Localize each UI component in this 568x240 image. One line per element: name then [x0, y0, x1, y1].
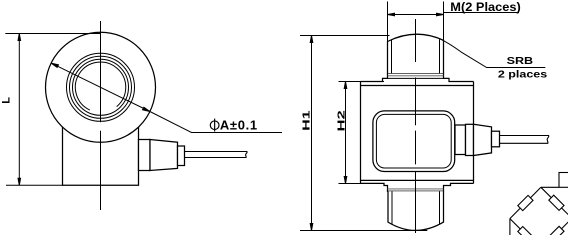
- body inner line bottom: [361, 179, 474, 181]
- resistor R1: [518, 195, 533, 210]
- thread major circle: [73, 59, 129, 115]
- M dimension extension lines: [387, 2, 389, 42]
- resistor R4: [549, 226, 564, 240]
- dimension L extension bottom: [6, 184, 63, 186]
- dimension L extension top: [5, 33, 100, 35]
- body circle (front view): [46, 32, 156, 142]
- resistor R3: [518, 226, 533, 240]
- body inner line top: [361, 85, 474, 87]
- bottom hex nut facet lines: [391, 191, 393, 224]
- top boss profile (plate and washer steps): [361, 73, 474, 81]
- diameter dimension leader: [51, 63, 282, 132]
- label M underline: [444, 12, 520, 14]
- recess rounded square outer: [373, 111, 455, 172]
- terminal box: [559, 173, 568, 188]
- bridge edge top-left (wire): [510, 187, 541, 218]
- cable gland collar (front view): [139, 140, 151, 171]
- SRB leader: [440, 39, 546, 68]
- svg-text:H1: H1: [300, 110, 312, 130]
- top washer mid line: [388, 75, 444, 77]
- bridge edge bottom-right (wire): [541, 218, 568, 240]
- cable gland taper (front view): [150, 140, 178, 171]
- svg-text:SRB: SRB: [507, 55, 534, 67]
- body right edge (side view): [473, 82, 475, 184]
- boss ring: [67, 53, 135, 121]
- bottom hex nut: [388, 191, 444, 230]
- cable (front view): [185, 152, 248, 158]
- bottom washer mid line: [388, 188, 444, 190]
- cable gland taper (side view): [474, 124, 492, 155]
- inner cable boss (side view): [455, 125, 466, 155]
- H1 dimension extension top: [300, 35, 390, 37]
- H1 dimension line: [310, 36, 313, 231]
- wire from left node: [509, 219, 511, 236]
- svg-text:2 places: 2 places: [498, 68, 547, 80]
- base block (front view): [63, 127, 139, 186]
- dimension L line: [18, 34, 21, 186]
- top hex nut: [388, 34, 444, 73]
- svg-text:A±0.1: A±0.1: [220, 117, 257, 132]
- top washer bottom line: [388, 77, 444, 79]
- body block (side view): [361, 82, 474, 184]
- cable gland nipple (front view): [178, 146, 185, 166]
- svg-text:M(2 Places): M(2 Places): [450, 0, 521, 14]
- thread minor arc: [75, 62, 125, 110]
- H2 dimension extension top: [339, 81, 385, 83]
- cable gland nipple (side view): [492, 131, 500, 147]
- svg-text:L: L: [0, 97, 12, 104]
- body left edge (side view): [360, 82, 362, 184]
- bottom boss profile (plate and washer steps): [361, 183, 474, 191]
- M dimension line: [388, 13, 444, 16]
- resistor R2: [549, 195, 564, 210]
- centerline (side view): [415, 19, 417, 233]
- H2 dimension line: [344, 82, 347, 184]
- label phi A +/-0.1: [210, 119, 219, 132]
- recess rounded square inner: [376, 114, 451, 168]
- top hex nut facet lines: [391, 40, 393, 73]
- chamfer ring: [70, 56, 132, 118]
- cable (side view): [500, 136, 549, 144]
- H1 dimension extension bottom: [300, 230, 427, 232]
- wire to terminal box: [541, 186, 559, 188]
- svg-text:H2: H2: [335, 110, 347, 132]
- centerline (front view): [100, 21, 102, 210]
- bridge edge top-right (wire): [541, 187, 568, 218]
- cable gland collar (side view): [466, 124, 474, 155]
- bridge edge bottom-left (wire): [510, 219, 541, 240]
- H2 dimension extension bottom: [339, 183, 385, 185]
